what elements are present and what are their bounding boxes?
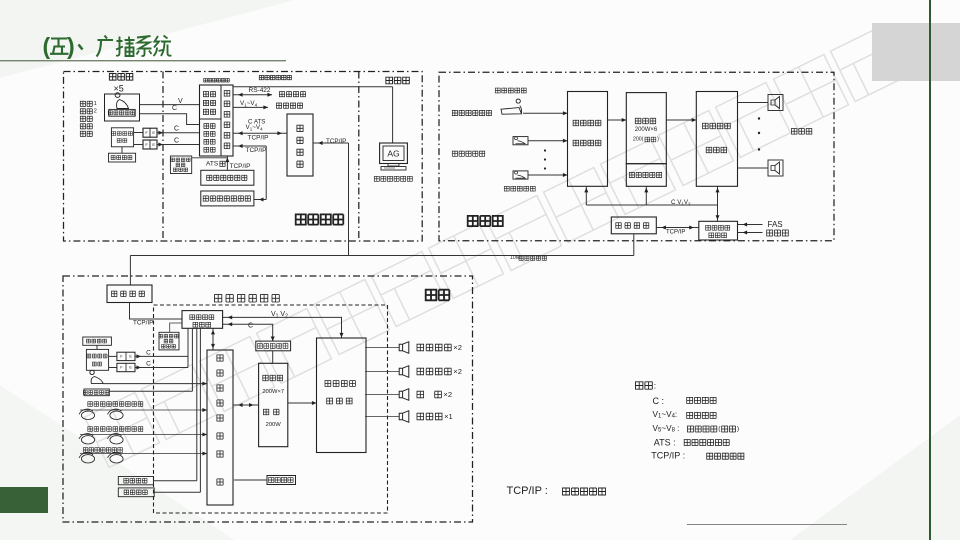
svg-text:TCP/IP: TCP/IP (326, 138, 346, 145)
svg-text:): ) (67, 33, 75, 59)
svg-text:F: F (120, 366, 123, 370)
svg-text::: : (654, 381, 656, 391)
svg-text:): ) (657, 137, 659, 143)
svg-text:10M: 10M (510, 255, 520, 261)
svg-text:1: 1 (94, 101, 97, 107)
svg-text:×2: ×2 (443, 390, 452, 399)
svg-text:(: ( (718, 426, 721, 433)
svg-text:E: E (152, 130, 155, 135)
svg-text:AG: AG (387, 149, 399, 159)
svg-text:C: C (146, 350, 151, 357)
svg-text:(: ( (43, 33, 51, 59)
svg-text:C V1V2: C V1V2 (671, 199, 691, 207)
svg-text:V1 V2: V1 V2 (271, 311, 288, 319)
svg-text:TCP/IP: TCP/IP (246, 147, 267, 154)
svg-text:C: C (146, 361, 151, 368)
svg-text:C: C (174, 138, 179, 145)
svg-text:): ) (737, 426, 739, 433)
svg-text:V1~V4: V1~V4 (240, 100, 258, 108)
svg-text:200W×6: 200W×6 (635, 127, 658, 133)
svg-text:×2: ×2 (453, 343, 462, 352)
svg-text:E: E (129, 354, 132, 358)
svg-text:E: E (129, 366, 132, 370)
svg-text:×5: ×5 (114, 84, 124, 94)
svg-text:F: F (145, 130, 148, 135)
svg-text:E: E (152, 142, 155, 147)
svg-text:200(: 200( (633, 137, 644, 143)
svg-text:200W: 200W (266, 422, 282, 428)
svg-text:2: 2 (94, 108, 97, 114)
svg-text:V5~V8 :: V5~V8 : (653, 424, 680, 434)
svg-text:TCP/IP: TCP/IP (133, 320, 153, 327)
svg-text:F: F (120, 354, 123, 358)
svg-text:C: C (172, 105, 177, 112)
svg-text:V1~V4:: V1~V4: (653, 410, 678, 420)
svg-text:TCP/IP: TCP/IP (666, 229, 685, 235)
svg-text:ATS :: ATS : (654, 437, 676, 447)
svg-text:RS-422: RS-422 (249, 87, 271, 94)
svg-text:C: C (174, 126, 179, 133)
svg-text:FAS: FAS (768, 220, 783, 229)
svg-text:C :: C : (653, 396, 665, 406)
svg-text:×2: ×2 (453, 367, 462, 376)
svg-text:F: F (145, 142, 148, 147)
svg-text:TCP/IP: TCP/IP (248, 135, 269, 142)
svg-text:ATS: ATS (206, 161, 219, 168)
svg-text:V: V (178, 98, 183, 105)
svg-text:TCP/IP :: TCP/IP : (651, 451, 685, 461)
svg-text:×1: ×1 (444, 412, 453, 421)
svg-text:C: C (248, 322, 253, 329)
svg-text:TCP/IP :: TCP/IP : (507, 485, 548, 497)
svg-text:200W×7: 200W×7 (262, 389, 284, 395)
svg-text:TCP/IP: TCP/IP (230, 163, 251, 170)
